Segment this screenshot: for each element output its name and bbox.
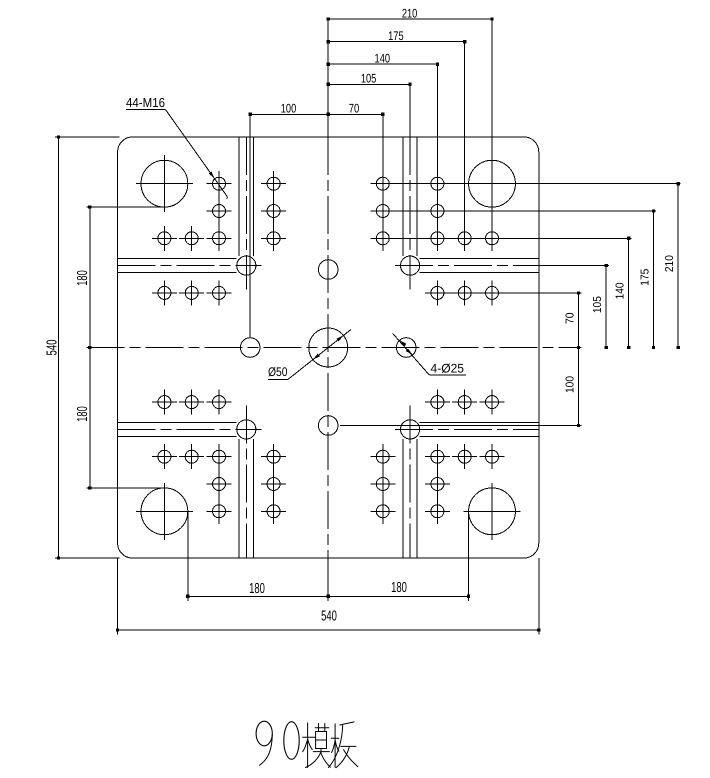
svg-text:Ø50: Ø50 bbox=[268, 365, 288, 379]
title "90" bbox=[256, 721, 299, 765]
dimension 100 top (center to left Ø25) bbox=[249, 102, 330, 116]
hole Ø25 left bbox=[240, 338, 260, 358]
svg-text:210: 210 bbox=[664, 255, 676, 272]
M16 tapped hole at (+210,-140)mm TR bbox=[480, 226, 505, 251]
M16 tapped hole at (-70,-175)mm TL bbox=[261, 199, 286, 224]
M16 tapped hole at (+140,+70)mm BR bbox=[425, 390, 450, 415]
M16 tapped hole at (-70,+210)mm BL bbox=[261, 499, 286, 524]
extension line: 70 dim down to hole column bbox=[382, 114, 384, 182]
dimension 175 top bbox=[327, 29, 467, 43]
extension line: 100 dim down to left Ø25 hole bbox=[249, 114, 251, 337]
M16 tapped hole at (-210,-70)mm TL bbox=[152, 280, 177, 305]
extension line: row -70 holes to 70 dim bbox=[425, 292, 582, 294]
extension line: plate right edge down to 540 dim bbox=[538, 558, 540, 634]
svg-text:180: 180 bbox=[249, 581, 265, 597]
M16 tapped hole at (-210,+140)mm BL bbox=[152, 444, 177, 469]
M16 tapped hole at (-70,+175)mm BL bbox=[261, 472, 286, 497]
corner clearance hole Ø60 top-left bbox=[136, 155, 193, 212]
M16 tapped hole at (+70,+140)mm BR bbox=[370, 444, 395, 469]
M16 tapped hole at (-175,+70)mm BL bbox=[179, 390, 204, 415]
M16 tapped hole at (+70,-210)mm TR bbox=[370, 171, 395, 196]
corner clearance hole Ø60 bottom-right bbox=[464, 483, 521, 540]
dimension 210 right bbox=[664, 182, 680, 349]
label 4-Ø25 with leader bbox=[393, 333, 467, 375]
svg-text:100: 100 bbox=[565, 376, 577, 393]
svg-text:44-M16: 44-M16 bbox=[126, 95, 165, 110]
M16 tapped hole at (-140,+70)mm BL bbox=[207, 390, 232, 415]
M16 tapped hole at (+140,-175)mm TR bbox=[425, 199, 450, 224]
M16 tapped hole at (+175,-70)mm TR bbox=[452, 280, 477, 305]
horizontal centerline bbox=[86, 347, 581, 349]
M16 tapped hole at (-175,+140)mm BL bbox=[179, 444, 204, 469]
M16 tapped hole at (+140,+140)mm BR bbox=[425, 444, 450, 469]
extension line: plate bottom edge to 540 dim bbox=[55, 557, 120, 559]
svg-text:100: 100 bbox=[281, 102, 297, 116]
extension line: row -175 holes to right dims bbox=[370, 210, 656, 212]
dimension 140 right bbox=[615, 237, 631, 349]
M16 tapped hole at (+140,+175)mm BR bbox=[425, 472, 450, 497]
M16 tapped hole at (+210,+140)mm BR bbox=[480, 444, 505, 469]
label 44-M16 with leader bbox=[126, 95, 227, 199]
dimension 175 right bbox=[639, 209, 655, 349]
svg-text:105: 105 bbox=[361, 72, 377, 86]
extension line: centerline down to bottom dims bbox=[327, 558, 329, 601]
M16 tapped hole at (-210,+70)mm BL bbox=[152, 390, 177, 415]
hole Ø25 bottom bbox=[318, 416, 338, 436]
hole Ø25 top bbox=[318, 260, 338, 280]
extension line: bottom-left circle tangent to 180 dim bbox=[86, 487, 164, 489]
M16 tapped hole at (-210,-140)mm TL bbox=[152, 226, 177, 251]
extension line: top-left circle tangent to 180 dim bbox=[86, 206, 164, 208]
extension line: plate left edge down to 540 dim bbox=[117, 558, 119, 634]
svg-text:540: 540 bbox=[45, 340, 61, 356]
extension line: bottom Ø25 to 100 dim bbox=[340, 425, 581, 427]
dimension 540 left bbox=[45, 135, 61, 559]
M16 tapped hole at (+140,-210)mm TR bbox=[425, 171, 450, 196]
M16 tapped hole at (-140,+140)mm BL bbox=[207, 444, 232, 469]
M16 tapped hole at (-70,+140)mm BL bbox=[261, 444, 286, 469]
extension line: row -210 holes to right dims bbox=[370, 183, 680, 185]
M16 tapped hole at (+210,-70)mm TR bbox=[480, 280, 505, 305]
svg-text:180: 180 bbox=[75, 406, 91, 422]
svg-text:180: 180 bbox=[391, 580, 407, 596]
dimension 100 right (center down to bottom Ø25) bbox=[565, 348, 581, 428]
M16 tapped hole at (+140,+210)mm BR bbox=[425, 499, 450, 524]
central hole Ø50 bbox=[309, 328, 348, 367]
title character 模 bbox=[303, 723, 331, 768]
M16 tapped hole at (+175,+140)mm BR bbox=[452, 444, 477, 469]
corner clearance hole Ø60 bottom-left bbox=[136, 483, 193, 540]
M16 tapped hole at (-175,-140)mm TL bbox=[179, 226, 204, 251]
M16 tapped hole at (+70,+210)mm BR bbox=[370, 499, 395, 524]
extension line: slot centerline to 105 dim bbox=[539, 265, 609, 267]
M16 tapped hole at (+175,-140)mm TR bbox=[452, 226, 477, 251]
M16 tapped hole at (+70,-175)mm TR bbox=[370, 199, 395, 224]
svg-text:540: 540 bbox=[321, 609, 337, 625]
extension line: centerline up to top dims bbox=[327, 19, 329, 137]
M16 tapped hole at (-140,-175)mm TL bbox=[207, 199, 232, 224]
channel slot top-left with junction circle bbox=[118, 137, 262, 290]
M16 tapped hole at (-140,+175)mm BL bbox=[207, 472, 232, 497]
svg-text:210: 210 bbox=[402, 7, 418, 21]
dimension 210 top bbox=[327, 7, 494, 21]
M16 tapped hole at (+175,+70)mm BR bbox=[452, 390, 477, 415]
dimension 70 right bbox=[565, 291, 581, 349]
M16 tapped hole at (+140,-140)mm TR bbox=[425, 226, 450, 251]
channel slot bottom-right with junction circle bbox=[395, 405, 539, 558]
M16 tapped hole at (+70,-140)mm TR bbox=[370, 226, 395, 251]
hole Ø25 right bbox=[396, 338, 416, 358]
M16 tapped hole at (+210,+70)mm BR bbox=[480, 390, 505, 415]
extension line: 105 dim down to slot bbox=[409, 84, 411, 137]
extension line: 210 dim down through corner circle to holes bbox=[491, 19, 493, 251]
dimension 180 left upper bbox=[75, 206, 91, 350]
extension line: bottom-right circle tangent down to 180 dim bbox=[468, 511, 470, 601]
channel slot bottom-left with junction circle bbox=[118, 405, 262, 558]
extension line: plate top edge to 540 dim bbox=[55, 136, 120, 138]
M16 tapped hole at (+70,+175)mm BR bbox=[370, 472, 395, 497]
dimension 140 top bbox=[327, 52, 439, 66]
extension line: 175 dim down to hole bbox=[464, 42, 466, 251]
dimension 180 bottom right bbox=[328, 580, 470, 598]
M16 tapped hole at (-140,-210)mm TL bbox=[207, 171, 232, 196]
extension line: row -140 holes to right dims bbox=[370, 237, 631, 239]
M16 tapped hole at (-175,-70)mm TL bbox=[179, 280, 204, 305]
svg-text:4-Ø25: 4-Ø25 bbox=[431, 361, 465, 375]
dimension 540 bottom bbox=[116, 609, 540, 632]
svg-text:140: 140 bbox=[375, 52, 391, 66]
M16 tapped hole at (-140,-70)mm TL bbox=[207, 280, 232, 305]
svg-text:180: 180 bbox=[75, 270, 91, 286]
M16 tapped hole at (+140,-70)mm TR bbox=[425, 280, 450, 305]
svg-text:105: 105 bbox=[592, 296, 604, 313]
extension line: bottom-left circle tangent down to 180 dim bbox=[187, 511, 189, 601]
dimension 105 top bbox=[327, 72, 412, 86]
dimension 70 top bbox=[328, 102, 384, 116]
M16 tapped hole at (-140,+210)mm BL bbox=[207, 499, 232, 524]
plate outline 540x540 rounded corners bbox=[118, 137, 539, 558]
dimension 105 right bbox=[592, 264, 608, 349]
svg-text:70: 70 bbox=[349, 102, 360, 116]
svg-text:175: 175 bbox=[639, 269, 651, 286]
vertical centerline bbox=[327, 137, 329, 558]
dimension 180 bottom left bbox=[186, 581, 330, 598]
M16 tapped hole at (-70,-140)mm TL bbox=[261, 226, 286, 251]
svg-text:70: 70 bbox=[565, 312, 577, 324]
title character 板 bbox=[328, 722, 358, 768]
M16 tapped hole at (-140,-140)mm TL bbox=[207, 226, 232, 251]
svg-text:175: 175 bbox=[388, 29, 404, 43]
label Ø50 with leader bbox=[268, 330, 351, 380]
channel slot top-right with junction circle bbox=[395, 137, 539, 290]
extension line: 140 dim down to hole column bbox=[436, 64, 438, 183]
hole column centerline extensions bbox=[219, 171, 437, 524]
M16 tapped hole at (-70,-210)mm TL bbox=[261, 171, 286, 196]
dimension 180 left lower bbox=[75, 348, 91, 490]
corner clearance hole Ø60 top-right bbox=[464, 155, 521, 212]
svg-text:140: 140 bbox=[615, 282, 627, 299]
